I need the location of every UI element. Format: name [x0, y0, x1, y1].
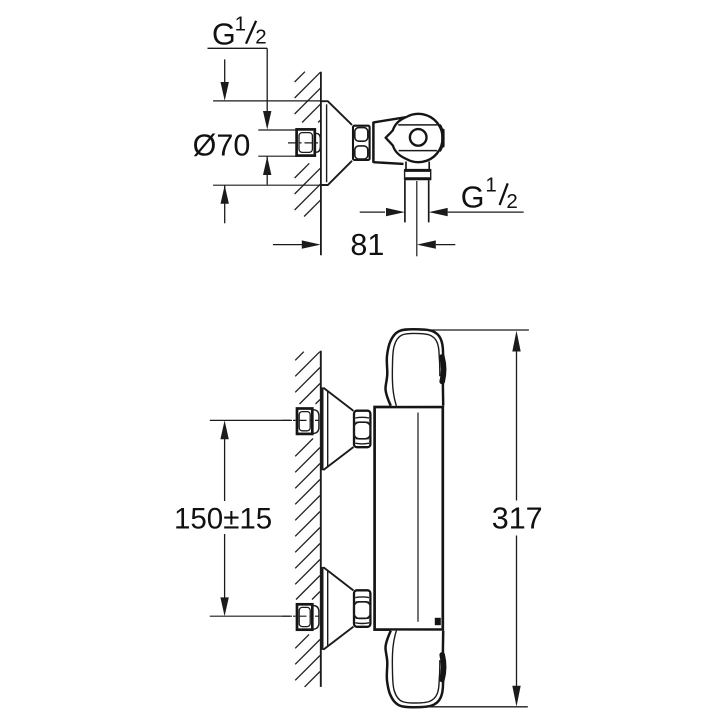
band chord lines on head — [398, 125, 438, 151]
mixer body (bottom view) — [375, 407, 443, 630]
dimension Ø70 upper arrow (pointing down) — [221, 59, 229, 100]
wall hatching upper band (top view) — [295, 72, 321, 123]
beak pointer (escutcheon cap edge on head) — [386, 117, 407, 159]
centerline lower fitting (dash-dot) — [282, 615, 320, 617]
label 317 — [492, 501, 543, 535]
dimension 317: extension line top — [419, 329, 529, 331]
dimension G 1/2 pipe: right arrow — [429, 208, 524, 216]
hex nut (top view, S-union nut) — [353, 126, 370, 160]
wall hatching band 2 (bottom view) — [295, 439, 320, 600]
pipe centre extension line — [416, 181, 418, 256]
centerline of union fitting (dash-dot) — [288, 142, 320, 144]
lower union fitting square (bottom view) — [297, 604, 319, 629]
extension line fitting top edge — [258, 129, 296, 131]
valve body (top view, thermostat housing side) — [373, 117, 406, 164]
extension line escutcheon bottom (Ø70) — [213, 184, 326, 186]
svg-text:150±15: 150±15 — [174, 502, 272, 535]
svg-text:2: 2 — [255, 26, 266, 49]
wall hatching band 3 (bottom view) — [295, 635, 320, 687]
svg-text:317: 317 — [492, 501, 543, 535]
dimension G 1/2 pipe: left arrow — [360, 208, 405, 216]
dimension 150±15: vertical line with arrows — [220, 420, 228, 616]
outlet pipe — [405, 180, 429, 222]
outlet coupling nut — [405, 169, 431, 180]
label 150±15 — [174, 502, 272, 535]
wall face line (top view) — [320, 72, 322, 256]
grip notch on bottom handle — [442, 655, 444, 680]
dimension 317: vertical line with arrows — [512, 331, 520, 707]
dimension 150±15: extension line lower — [210, 615, 292, 617]
dimension 81: left arrow at wall — [273, 240, 321, 248]
lower hex nut (bottom view) — [354, 590, 371, 627]
escutcheon cone (top view) — [321, 101, 352, 185]
grip notch on top handle — [442, 357, 444, 382]
svg-text:2: 2 — [506, 190, 517, 213]
extension line fitting bottom edge — [258, 155, 296, 157]
label G 1/2 (top left) — [212, 13, 267, 52]
center boss circle on head — [410, 129, 427, 146]
centerline upper fitting (dash-dot) — [282, 419, 320, 421]
G 1/2 lower arrow pointing up — [263, 157, 271, 185]
outlet neck below head — [406, 162, 429, 170]
svg-text:81: 81 — [350, 228, 384, 262]
svg-text:1: 1 — [235, 13, 246, 36]
head circle (top view) — [406, 114, 442, 162]
upper hex nut (bottom view) — [354, 411, 371, 448]
svg-text:Ø70: Ø70 — [193, 129, 251, 163]
leader vertical for G 1/2 with down arrow — [263, 48, 271, 129]
wall face line (bottom view) — [320, 351, 322, 687]
upper union fitting square (bottom view) — [297, 409, 319, 434]
bottom handle knob (bottom view) — [385, 631, 443, 708]
union fitting square (top view, wall connection) — [297, 129, 321, 155]
lower escutcheon cone (bottom view) — [323, 567, 354, 650]
svg-text:1: 1 — [485, 174, 496, 197]
cap arc right of head — [440, 125, 445, 152]
label 81 — [350, 228, 384, 262]
extension line escutcheon top (Ø70) — [213, 100, 321, 102]
svg-text:G: G — [212, 17, 236, 51]
dimension 81: right arrow at pipe centre — [417, 240, 455, 248]
leader underline for G 1/2 (top left) — [208, 47, 268, 49]
wall hatching lower band (top view) — [295, 163, 321, 216]
top handle knob (bottom view) — [385, 329, 443, 406]
dimension 150±15: extension line upper — [210, 419, 292, 421]
dimension 317: extension line bottom — [412, 706, 528, 708]
svg-text:G: G — [461, 180, 485, 214]
label G 1/2 (right) — [461, 174, 518, 215]
label Ø70 — [193, 129, 251, 163]
dimension Ø70 lower arrow (pointing up) — [221, 185, 229, 223]
wall hatching band 1 (bottom view) — [295, 352, 320, 404]
upper escutcheon cone (bottom view) — [323, 387, 354, 470]
